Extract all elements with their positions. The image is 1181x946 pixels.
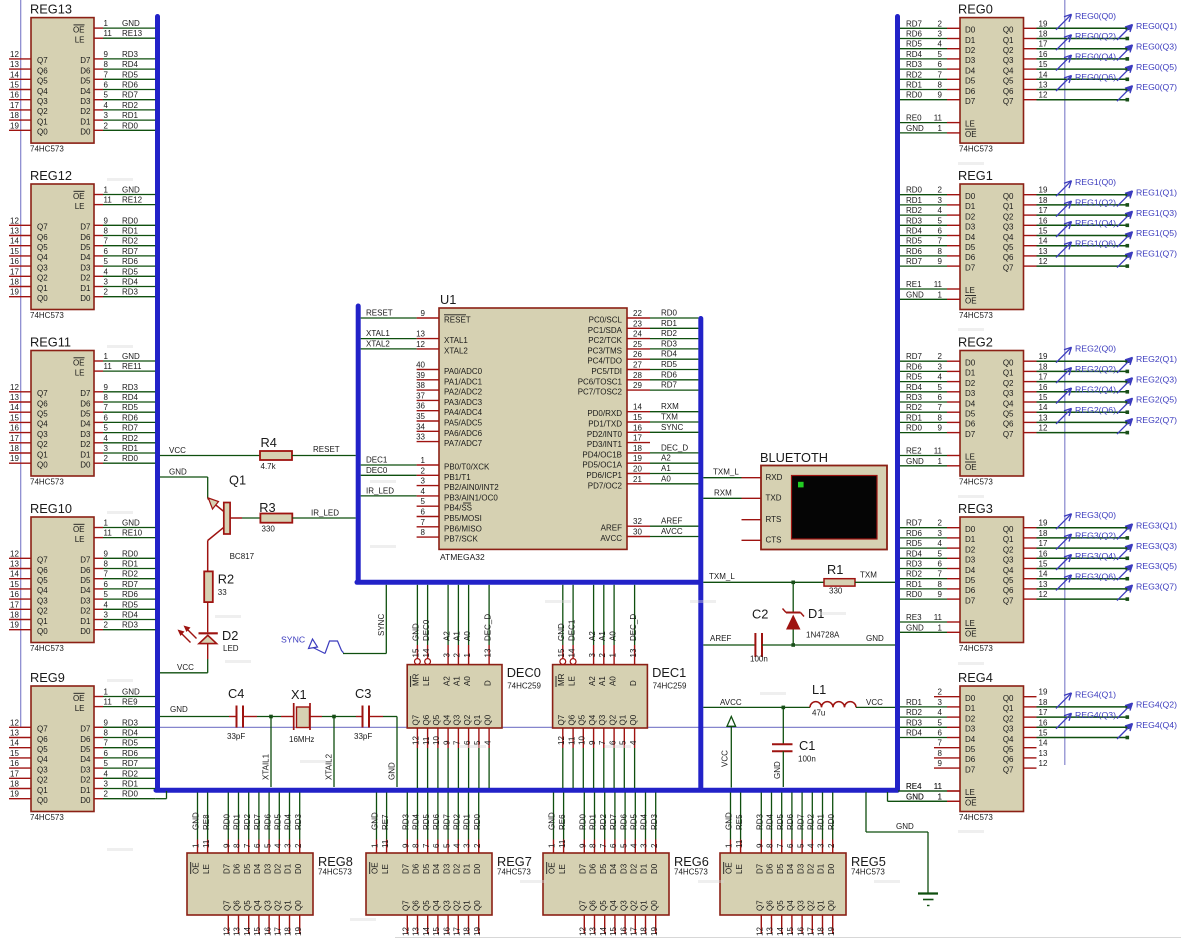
wire R2 to D2	[207, 602, 209, 632]
svg-text:Q0: Q0	[1003, 26, 1014, 35]
svg-text:LE: LE	[75, 535, 85, 544]
svg-text:D7: D7	[223, 863, 232, 874]
pin Q5 of REG0	[965, 70, 1048, 85]
svg-text:Q1: Q1	[473, 714, 482, 725]
pin PA3/ADC3 (37) of U1	[416, 391, 483, 407]
svg-text:13: 13	[412, 927, 421, 936]
svg-text:33: 33	[416, 433, 425, 442]
svg-text:3: 3	[104, 611, 109, 620]
svg-text:LED: LED	[223, 644, 239, 653]
pin Q7 stub of REG13	[9, 50, 91, 65]
svg-text:D5: D5	[599, 863, 608, 874]
svg-text:RD5: RD5	[422, 813, 431, 830]
svg-text:RD0: RD0	[122, 121, 139, 130]
svg-text:19: 19	[1039, 19, 1048, 28]
svg-text:16: 16	[1039, 383, 1048, 392]
svg-text:RD4: RD4	[906, 383, 923, 392]
pin Q7 of REG2	[965, 424, 1048, 439]
svg-text:2: 2	[938, 519, 943, 528]
pin Q0 stub of REG12	[9, 288, 91, 303]
pin Q5 stub of REG10	[9, 570, 91, 585]
pin Q4 of DEC0	[442, 714, 451, 788]
pin Q6 of REG2	[965, 413, 1048, 428]
svg-text:16: 16	[10, 91, 19, 100]
svg-text:D5: D5	[80, 576, 91, 585]
svg-text:Q2: Q2	[1003, 379, 1014, 388]
wire RD2 to REG8 pin 7	[243, 793, 252, 854]
wire RD4 to REG3 pin 5	[900, 549, 960, 558]
svg-text:D7: D7	[965, 263, 976, 272]
svg-text:18: 18	[10, 278, 19, 287]
terminal REG1(Q0)	[1056, 177, 1116, 196]
svg-text:D6: D6	[965, 253, 976, 262]
wire RD7 to REG13 pin 5	[94, 91, 155, 100]
wire RD4 to REG11 pin 8	[94, 393, 155, 402]
inside pin D0/Q0 of REG7	[473, 863, 482, 911]
svg-text:D5: D5	[965, 576, 976, 585]
svg-text:PD4/OC1B: PD4/OC1B	[582, 450, 622, 459]
wire RE12 to REG12 pin 11	[94, 196, 155, 205]
svg-text:D6: D6	[965, 420, 976, 429]
pin Q4 stub of REG11	[9, 413, 91, 428]
wire RD2 to REG2 pin 7	[900, 403, 960, 412]
wire RD0 to REG2 pin 9	[900, 424, 960, 433]
terminal REG0(Q2)	[1056, 31, 1116, 50]
svg-text:Q3: Q3	[598, 714, 607, 725]
svg-text:RD5: RD5	[274, 813, 283, 830]
svg-text:REG0(Q5): REG0(Q5)	[1136, 62, 1177, 72]
svg-text:Q6: Q6	[37, 735, 48, 744]
svg-text:XTAL2: XTAL2	[366, 339, 390, 348]
svg-text:Q1: Q1	[37, 617, 48, 626]
wire REG0(Q3) output	[1037, 57, 1130, 61]
wire REG0(Q7) output	[1037, 98, 1130, 102]
svg-text:Q7: Q7	[37, 725, 48, 734]
svg-text:Q5: Q5	[37, 576, 48, 585]
svg-text:12: 12	[1039, 91, 1048, 100]
svg-text:D3: D3	[619, 863, 628, 874]
pin Q4 stub of REG12	[9, 247, 91, 262]
svg-text:Q6: Q6	[412, 900, 421, 911]
svg-text:Q4: Q4	[37, 420, 48, 429]
ground symbol	[918, 894, 938, 906]
svg-text:D6: D6	[965, 755, 976, 764]
wire RD2 to REG13 pin 4	[94, 101, 155, 110]
wire GND to REG8 pin 1	[192, 793, 201, 854]
pin PB7/SCK (8) of U1	[417, 528, 479, 544]
svg-text:SYNC: SYNC	[281, 635, 305, 645]
svg-text:RD4: RD4	[122, 60, 139, 69]
svg-text:RD4: RD4	[906, 549, 923, 558]
svg-text:18: 18	[1039, 698, 1048, 707]
wire A1 from U1.PD6/ICP1 to inner bus	[650, 464, 698, 474]
svg-text:5: 5	[104, 257, 109, 266]
pin Q2 of REG1	[965, 206, 1048, 221]
pin Q4 stub of REG6	[609, 915, 618, 936]
svg-text:RD3: RD3	[122, 621, 139, 630]
svg-text:OE: OE	[725, 862, 734, 874]
svg-text:RD4: RD4	[122, 729, 139, 738]
svg-text:A1: A1	[661, 464, 671, 473]
svg-text:DEC0: DEC0	[422, 619, 431, 641]
wire RD3 to REG8 pin 2	[294, 793, 303, 854]
wire REG4(Q3) output	[1037, 726, 1130, 730]
resistor R2 33	[204, 571, 234, 602]
pin Q6 stub of REG11	[9, 393, 91, 408]
svg-text:REG1(Q3): REG1(Q3)	[1136, 208, 1177, 218]
svg-text:RD5: RD5	[906, 40, 923, 49]
svg-text:16: 16	[619, 927, 628, 936]
svg-text:R4: R4	[261, 435, 277, 450]
svg-text:Q3: Q3	[37, 263, 48, 272]
svg-text:Q0: Q0	[1003, 359, 1014, 368]
pin D6 stub of REG4	[934, 749, 960, 758]
svg-text:LE: LE	[75, 202, 85, 211]
inside pin D1/Q1 of REG6	[640, 863, 649, 911]
wire RD4 to REG6 pin 3	[640, 793, 649, 854]
terminal REG1(Q5)	[1117, 228, 1177, 247]
wire RE7 to REG7 pin 11	[381, 793, 390, 854]
pin Q5 stub of REG11	[9, 403, 91, 418]
pin Q6 stub of REG6	[589, 915, 598, 936]
wire RD4 to REG4 pin 6	[900, 729, 960, 738]
svg-text:Q6: Q6	[37, 566, 48, 575]
svg-text:REG12: REG12	[30, 168, 72, 183]
svg-text:6: 6	[938, 560, 943, 569]
svg-text:74HC259: 74HC259	[653, 682, 687, 691]
svg-text:XTAIL1: XTAIL1	[262, 753, 271, 780]
svg-text:14: 14	[243, 927, 252, 936]
wire RD0 to REG13 pin 2	[94, 121, 155, 130]
pin Q7 stub of REG12	[9, 216, 91, 231]
svg-text:Q6: Q6	[766, 900, 775, 911]
wire RD7 to REG9 pin 5	[94, 759, 155, 768]
pin Q1 stub of REG12	[9, 278, 91, 293]
wire RD0 to REG1 pin 2	[900, 186, 960, 195]
svg-text:6: 6	[104, 247, 109, 256]
svg-text:RD1: RD1	[122, 111, 139, 120]
pin PC6/TOSC1 (28) of U1	[578, 371, 650, 387]
svg-text:MR: MR	[412, 673, 421, 686]
svg-text:D4: D4	[253, 863, 262, 874]
wire RD6 to REG8 pin 5	[263, 793, 272, 854]
wire RD1 to REG7 pin 3	[463, 793, 472, 854]
svg-text:Q5: Q5	[37, 77, 48, 86]
pin Q6 of DEC1	[567, 714, 576, 788]
pin Q4 of REG2	[965, 393, 1048, 408]
svg-text:9: 9	[402, 843, 411, 848]
svg-text:RD0: RD0	[579, 813, 588, 830]
wire RXM from U1.PD0/RXD to inner bus	[650, 402, 698, 412]
svg-text:RD4: RD4	[122, 611, 139, 620]
wire TXM_L from inner bus to R1	[703, 572, 824, 584]
svg-text:17: 17	[1039, 708, 1048, 717]
wire RD5 to REG2 pin 4	[900, 373, 960, 382]
svg-text:Q1: Q1	[1003, 36, 1014, 45]
wire RE3 to REG3 pin 11	[900, 613, 960, 622]
svg-text:REG2(Q6): REG2(Q6)	[1075, 405, 1116, 415]
svg-text:LE: LE	[422, 676, 431, 686]
svg-text:RE8: RE8	[202, 814, 211, 830]
svg-text:Q7: Q7	[37, 223, 48, 232]
inside pin D5/Q5 of REG5	[776, 863, 785, 911]
svg-text:PC2/TCK: PC2/TCK	[588, 336, 622, 345]
svg-text:18: 18	[10, 611, 19, 620]
wire RD1 to REG5 pin 3	[817, 793, 826, 854]
wire RD6 to REG9 pin 6	[94, 749, 155, 758]
pin Q6 of DEC0	[422, 714, 431, 788]
inside pin D4/Q4 of REG7	[432, 863, 441, 911]
svg-text:7: 7	[938, 70, 943, 79]
svg-text:14: 14	[1039, 70, 1048, 79]
svg-text:Q2: Q2	[37, 607, 48, 616]
svg-text:Q1: Q1	[463, 900, 472, 911]
svg-text:9: 9	[938, 590, 943, 599]
svg-text:IR_LED: IR_LED	[366, 486, 394, 495]
svg-text:7: 7	[776, 843, 785, 848]
terminal REG2(Q0)	[1056, 344, 1116, 363]
inside pin D1/Q1 of REG7	[463, 863, 472, 911]
svg-text:17: 17	[1039, 373, 1048, 382]
wire RD4 to REG1 pin 6	[900, 227, 960, 236]
pin Q7 of REG4	[965, 759, 1048, 774]
svg-text:Q6: Q6	[1003, 586, 1014, 595]
svg-text:Q5: Q5	[432, 714, 441, 725]
svg-text:19: 19	[10, 454, 19, 463]
svg-text:12: 12	[1039, 759, 1048, 768]
svg-text:RD4: RD4	[122, 278, 139, 287]
pin Q7 of DEC0	[412, 714, 421, 788]
svg-text:74HC573: 74HC573	[959, 311, 993, 320]
decorative faint sheet line	[395, 937, 1181, 939]
wire RD3 to REG2 pin 6	[900, 393, 960, 402]
svg-text:RD4: RD4	[906, 50, 923, 59]
pin D5 stub of REG4	[934, 739, 960, 748]
svg-text:1: 1	[938, 792, 943, 801]
svg-text:4: 4	[104, 267, 109, 276]
svg-text:TXM_L: TXM_L	[709, 572, 735, 581]
svg-text:VCC: VCC	[866, 698, 883, 707]
svg-text:74HC573: 74HC573	[851, 868, 885, 877]
svg-text:GND: GND	[906, 124, 924, 133]
svg-text:Q6: Q6	[589, 900, 598, 911]
wire GND to REG13 pin 1	[94, 19, 155, 28]
svg-text:11: 11	[104, 29, 113, 38]
svg-text:Q1: Q1	[284, 900, 293, 911]
svg-text:12: 12	[1039, 590, 1048, 599]
svg-text:Q3: Q3	[37, 765, 48, 774]
pin PC1/SDA (23) of U1	[588, 319, 650, 335]
svg-text:D7: D7	[80, 56, 91, 65]
inside pin D4/Q4 of REG8	[253, 863, 262, 911]
svg-text:D3: D3	[80, 97, 91, 106]
svg-text:12: 12	[1039, 424, 1048, 433]
svg-text:PA4/ADC4: PA4/ADC4	[444, 408, 483, 417]
svg-text:5: 5	[619, 740, 628, 745]
svg-text:OE: OE	[965, 463, 977, 472]
terminal REG1(Q4)	[1056, 218, 1116, 237]
pin Q6 stub of REG7	[412, 915, 421, 936]
svg-text:6: 6	[104, 749, 109, 758]
svg-text:Q4: Q4	[37, 755, 48, 764]
svg-text:RD6: RD6	[122, 749, 139, 758]
wire RD0 to REG12 pin 9	[94, 216, 155, 225]
svg-text:D4: D4	[80, 87, 91, 96]
inside pin D3/Q3 of REG6	[619, 863, 628, 911]
svg-text:C4: C4	[228, 686, 244, 701]
terminal REG2(Q1)	[1117, 354, 1177, 373]
wire RD2 to REG0 pin 7	[900, 70, 960, 79]
svg-text:D4: D4	[80, 755, 91, 764]
svg-text:4: 4	[421, 487, 426, 496]
svg-text:REG0: REG0	[958, 2, 993, 17]
svg-text:D3: D3	[263, 863, 272, 874]
svg-text:15: 15	[1039, 227, 1048, 236]
svg-text:DEC1: DEC1	[366, 456, 388, 465]
wire RD4 from U1.PC4/TDO to inner bus	[650, 350, 698, 360]
pin Q5 stub of REG9	[9, 739, 91, 754]
svg-text:16: 16	[633, 423, 642, 432]
wire REG2(Q5) output	[1037, 410, 1130, 414]
pin Q2 of DEC1	[608, 714, 617, 788]
pin PA1/ADC1 (39) of U1	[416, 371, 483, 387]
svg-text:D0: D0	[965, 694, 976, 703]
svg-text:GND: GND	[122, 186, 140, 195]
svg-text:D: D	[483, 680, 492, 686]
pin Q0 of REG4	[965, 688, 1048, 703]
svg-text:RD1: RD1	[906, 196, 923, 205]
svg-text:8: 8	[233, 843, 242, 848]
wire RD0 to REG8 pin 9	[223, 793, 232, 854]
inside pin D5/Q5 of REG7	[422, 863, 431, 911]
svg-text:RD6: RD6	[786, 813, 795, 830]
wire base to R3	[242, 517, 260, 519]
wire RD5 to REG13 pin 7	[94, 70, 155, 79]
svg-text:LE: LE	[202, 864, 211, 874]
wire REG2(Q4) output	[1037, 400, 1130, 404]
svg-text:TXM: TXM	[661, 413, 678, 422]
svg-text:D0: D0	[965, 359, 976, 368]
wire REG2(Q3) output	[1037, 390, 1130, 394]
svg-text:Q4: Q4	[37, 87, 48, 96]
svg-text:Q5: Q5	[1003, 77, 1014, 86]
svg-text:11: 11	[558, 839, 567, 848]
svg-text:11: 11	[104, 196, 113, 205]
svg-text:12: 12	[10, 549, 19, 558]
wire DEC0 to U1.PB1/T1	[361, 466, 417, 476]
svg-text:18: 18	[1039, 362, 1048, 371]
terminal REG2(Q4)	[1056, 385, 1116, 404]
svg-text:Q1: Q1	[1003, 369, 1014, 378]
svg-text:Q6: Q6	[1003, 755, 1014, 764]
svg-text:1: 1	[421, 456, 426, 465]
pin Q4 of REG0	[965, 60, 1048, 75]
svg-text:RD2: RD2	[243, 813, 252, 830]
pin Q7 stub of REG10	[9, 549, 91, 564]
svg-text:D6: D6	[80, 233, 91, 242]
svg-text:40: 40	[416, 361, 425, 370]
svg-text:9: 9	[223, 843, 232, 848]
svg-text:AVCC: AVCC	[600, 534, 622, 543]
svg-text:D3: D3	[965, 556, 976, 565]
wire IR_LED to U1.PB3/AIN1/OC0	[361, 486, 417, 496]
svg-text:17: 17	[10, 769, 19, 778]
svg-text:GND: GND	[122, 19, 140, 28]
svg-text:D1: D1	[965, 369, 976, 378]
svg-text:15: 15	[1039, 60, 1048, 69]
wire RE6 to REG6 pin 11	[558, 793, 567, 854]
svg-text:RD0: RD0	[661, 309, 678, 318]
svg-text:Q0: Q0	[1003, 525, 1014, 534]
svg-text:RE0: RE0	[906, 114, 922, 123]
terminal REG1(Q3)	[1117, 208, 1177, 227]
wire RD5 to REG0 pin 4	[900, 40, 960, 49]
wire RE1 to REG1 pin 11	[900, 280, 960, 289]
wire RD5 to REG5 pin 7	[776, 793, 785, 854]
svg-text:LE: LE	[965, 120, 975, 129]
svg-text:REG3: REG3	[958, 501, 993, 516]
svg-text:Q0: Q0	[629, 714, 638, 725]
svg-text:LE: LE	[558, 864, 567, 874]
svg-text:BLUETOTH: BLUETOTH	[760, 450, 828, 465]
svg-text:16: 16	[10, 424, 19, 433]
pin PA4/ADC4 (36) of U1	[416, 402, 483, 418]
svg-text:6: 6	[609, 843, 618, 848]
inside pin D0/Q0 of REG8	[294, 863, 303, 911]
svg-text:RD3: RD3	[906, 718, 923, 727]
pin PB2/AIN0/INT2 (3) of U1	[417, 477, 500, 493]
svg-text:OE: OE	[965, 130, 977, 139]
wire AVCC from U1.AVCC to inner bus	[650, 527, 698, 537]
svg-text:13: 13	[10, 560, 19, 569]
svg-text:RTS: RTS	[766, 515, 782, 524]
svg-text:Q2: Q2	[37, 274, 48, 283]
pin D7 stub of REG4	[934, 759, 960, 768]
svg-text:12: 12	[10, 383, 19, 392]
decoder DEC1 (74HC259)	[553, 665, 687, 728]
svg-text:D2: D2	[965, 714, 976, 723]
svg-text:D7: D7	[965, 596, 976, 605]
pin PC0/SCL (22) of U1	[589, 309, 650, 325]
svg-text:18: 18	[284, 927, 293, 936]
svg-text:9: 9	[421, 309, 426, 318]
inside pin D2/Q2 of REG7	[453, 863, 462, 911]
svg-text:D0: D0	[827, 863, 836, 874]
svg-text:DEC1: DEC1	[652, 665, 686, 680]
svg-text:GND: GND	[122, 352, 140, 361]
svg-text:2: 2	[938, 19, 943, 28]
svg-text:RD7: RD7	[661, 381, 678, 390]
svg-text:RD0: RD0	[906, 91, 923, 100]
svg-text:18: 18	[10, 780, 19, 789]
pin Q6 stub of REG5	[766, 915, 775, 936]
svg-text:D0: D0	[294, 863, 303, 874]
svg-text:RD0: RD0	[122, 549, 139, 558]
svg-text:RD7: RD7	[122, 580, 139, 589]
pin Q7 stub of REG5	[756, 915, 765, 936]
svg-text:17: 17	[10, 101, 19, 110]
svg-text:4: 4	[483, 740, 492, 745]
wire RD1 to REG3 pin 8	[900, 580, 960, 589]
pin Q3 stub of REG5	[796, 915, 805, 936]
svg-text:5: 5	[104, 590, 109, 599]
wire RESET to U1.RESET	[361, 309, 417, 319]
svg-text:9: 9	[104, 549, 109, 558]
svg-text:PA3/ADC3: PA3/ADC3	[444, 398, 483, 407]
wire A0 from U1.PD7/OC2 to inner bus	[650, 474, 698, 484]
pin Q6 stub of REG10	[9, 560, 91, 575]
svg-text:RD7: RD7	[253, 813, 262, 830]
